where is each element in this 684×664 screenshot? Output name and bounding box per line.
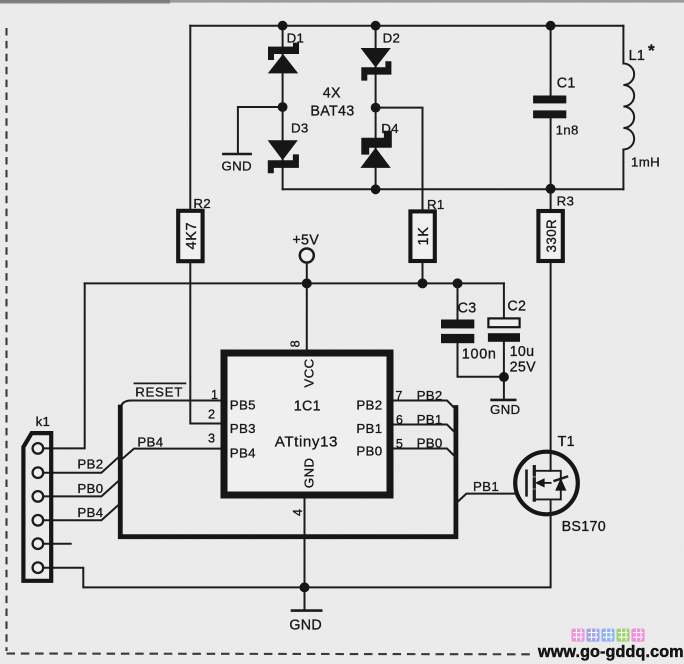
node bridge bottom / D4 [371,184,381,194]
ground below C2 [490,400,520,417]
node D1-D3 mid [278,102,288,112]
wire bottom ground rail k1 pin6 to MOSFET source [43,515,551,588]
svg-text:1K: 1K [416,226,432,245]
k1 pad 4 [33,515,44,526]
svg-text:+5V: +5V [292,233,319,249]
svg-text:PB2: PB2 [417,388,443,403]
svg-text:1C1: 1C1 [294,398,321,414]
svg-text:PB1: PB1 [473,479,499,494]
k1 pad 2 [33,467,44,478]
svg-text:GND: GND [490,402,520,417]
capacitor C1 [533,96,566,119]
svg-text:10u: 10u [510,344,535,360]
svg-text:*: * [648,41,655,60]
svg-text:ATtiny13: ATtiny13 [275,434,338,451]
svg-text:PB0: PB0 [356,444,382,459]
ground top left of D3 [222,154,252,173]
svg-text:T1: T1 [558,434,575,450]
resistor R1 [410,197,444,261]
wire D2/D4 branch vertical [375,26,377,190]
svg-text:C1: C1 [557,75,576,91]
wire +5V symbol down through rail to IC pin8 [306,263,308,350]
diode D4 [360,131,391,168]
wire R3 to MOSFET drain [550,189,552,471]
svg-text:4X: 4X [323,86,341,102]
wire IC pin4 down to bottom rail [304,498,306,587]
node top rail / C1 [546,21,556,31]
node bridge bottom / C1 R3 [546,184,556,194]
svg-text:2: 2 [208,407,215,421]
wire bridge bottom line D3 to L1 [283,188,624,190]
wire C3 branch [458,283,504,376]
wire IC pin6 to bus [393,425,456,434]
drain/source connections [534,471,561,515]
wire k1 pin5 stub [43,543,71,545]
k1 pad 5 [33,538,44,549]
wire C1 branch vertical [550,26,552,190]
svg-text:R3: R3 [557,193,575,208]
+5V supply symbol [292,233,319,263]
wire GND stub bottom center [304,587,306,609]
svg-text:330R: 330R [544,219,559,253]
svg-text:BS170: BS170 [562,519,606,535]
node +5V rail / pin8 [302,278,312,288]
k1 pad 3 [33,491,44,502]
wire bus thick U [120,407,456,537]
channel segments [533,467,536,501]
wire R1 bottom to +5V rail [422,262,424,283]
wire GND stub below C2/C3 [503,377,505,399]
svg-text:k1: k1 [36,414,51,429]
node +5V rail / C3 [453,278,463,288]
svg-text:PB0: PB0 [417,435,443,450]
svg-text:PB2: PB2 [356,398,382,413]
diode D2 [361,48,392,81]
svg-text:5: 5 [396,437,403,451]
svg-text:4: 4 [291,509,305,516]
node top rail / D1 [278,21,288,31]
svg-text:C2: C2 [507,298,526,314]
wire IC pin7 to bus [393,401,456,410]
svg-text:1n8: 1n8 [556,123,579,138]
svg-text:BAT43: BAT43 [310,103,354,119]
svg-text:8: 8 [288,340,302,347]
svg-text:D3: D3 [291,120,309,135]
svg-text:PB4: PB4 [137,434,163,449]
svg-text:7: 7 [395,389,402,403]
node +5V rail / R1 [418,278,428,288]
dashed page border bottom [7,652,531,655]
svg-text:www.go-gddq.com: www.go-gddq.com [537,643,684,661]
svg-text:L1: L1 [629,48,646,64]
svg-text:GND: GND [301,458,316,488]
svg-text:100n: 100n [462,347,497,363]
resistor R2 [178,196,211,261]
svg-text:6: 6 [396,413,403,427]
wire k1 pin4 to bus [43,504,120,520]
connector k1 body [23,433,51,581]
k1 pad 6 [33,562,44,573]
ground bottom center [289,611,322,634]
wire D2/D4 mid node to R1 top [376,108,423,210]
capacitor C2 electrolytic [488,318,520,341]
wire k1 pin1 up to +5V rail [43,283,85,448]
svg-text:R1: R1 [427,197,445,212]
svg-text:R2: R2 [193,196,211,211]
svg-text:PB1: PB1 [356,421,382,436]
node D2-D4 mid [371,103,381,113]
svg-text:3: 3 [208,432,215,446]
diode D1 [268,43,299,74]
wire C2 branch [503,283,505,377]
svg-text:PB1: PB1 [417,412,443,427]
svg-text:D4: D4 [381,121,399,136]
wire k1 pin2 to bus [43,456,120,472]
node top rail / D2 [371,21,381,31]
dashed page border left [5,28,7,651]
wire IC pin5 to bus [393,449,456,458]
substrate arrow [541,482,551,484]
svg-text:PB2: PB2 [77,457,103,472]
svg-text:D1: D1 [287,31,305,46]
node C2 C3 ground [499,372,509,382]
svg-text:25V: 25V [510,360,537,376]
svg-text:GND: GND [289,617,322,633]
svg-text:1: 1 [211,388,218,402]
wire bus to MOSFET gate PB1 [456,494,515,504]
wire D1/D3 branch vertical [282,26,284,190]
wire bridge mid to GND stub [238,107,283,153]
svg-text:1mH: 1mH [631,154,660,169]
svg-text:PB5: PB5 [230,398,256,413]
wire +5V rail [85,282,504,284]
wire IC pin3 to bus [121,449,220,460]
svg-text:PB3: PB3 [230,421,256,436]
body diode [555,478,566,491]
transistor T1 BS170 [515,452,578,515]
wire R2 branch: top rail down to R2, then to IC pin2 [190,26,220,424]
svg-text:D2: D2 [383,31,401,46]
capacitor C3 [441,320,474,344]
svg-text:VCC: VCC [301,359,316,388]
scan edge band top [0,0,684,3]
inductor L1 [623,26,634,190]
IC U1 ATtiny13 body [224,353,390,495]
svg-text:C3: C3 [458,301,477,317]
wire k1 pin3 to bus [43,480,120,496]
svg-text:4K7: 4K7 [184,222,200,250]
svg-text:PB4: PB4 [77,505,103,520]
diode D3 [268,140,299,173]
node bottom rail / pin4 [300,582,310,592]
svg-text:PB4: PB4 [230,446,256,461]
svg-text:RESET: RESET [135,385,183,400]
k1 pad 1 [33,443,44,454]
svg-text:PB0: PB0 [77,481,103,496]
gate bar [525,471,528,496]
wire top rail [190,25,623,27]
svg-text:GND: GND [222,158,252,173]
watermark URL [537,643,684,661]
resistor R3 [538,193,574,261]
wire RESET from IC pin1 into bus [120,401,220,412]
watermark CJK characters [572,629,645,642]
